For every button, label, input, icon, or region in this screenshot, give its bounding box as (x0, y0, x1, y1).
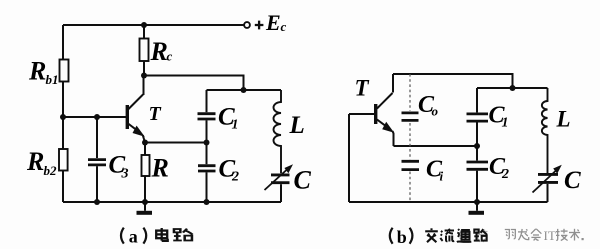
terminal: +Ec supply open circle (244, 22, 250, 28)
svg-text:1: 1 (502, 116, 509, 131)
wire: variable capacitor to bottom rail (280, 184, 282, 202)
svg-text:2: 2 (231, 170, 239, 185)
watermark: faint overlap glyph under caption (459, 230, 470, 243)
variable capacitor C plates circuit (b) (538, 174, 558, 182)
caption (b): left parenthesis (390, 228, 393, 244)
caption (b): character lu (road) second (474, 229, 487, 241)
variable capacitor C arrow circuit (a) (265, 170, 288, 191)
wire: emitter feedback wire (145, 142, 207, 144)
watermark: character long (dragon) (518, 229, 529, 240)
svg-text:R: R (26, 147, 44, 176)
node: base junction on left rail (60, 114, 66, 120)
svg-text:c: c (167, 49, 173, 64)
wire: emitter resistor lower segment (144, 176, 146, 202)
wire: base wire from divider to transistor (63, 116, 126, 118)
svg-text:i: i (440, 169, 444, 184)
variable capacitor C plates circuit (a) (271, 175, 290, 183)
capacitor C2 plates circuit (b) (467, 162, 489, 169)
variable capacitor C arrowhead circuit (b) (553, 165, 562, 174)
ground circuit (a) (137, 202, 153, 215)
wire: C2 branch upper segment (206, 143, 208, 165)
svg-text:3: 3 (121, 167, 129, 182)
svg-text:b2: b2 (44, 163, 58, 178)
caption (b): character tong (through) (457, 229, 471, 242)
svg-text:o: o (432, 104, 439, 119)
transistor T emitter arrowhead circuit (a) (133, 126, 145, 137)
watermark: character ji (skill) (556, 229, 568, 241)
capacitor C1 plates circuit (a) (198, 114, 216, 119)
caption (a): left parenthesis (121, 228, 124, 244)
transistor T emitter lead circuit (b) (377, 120, 394, 147)
wire: C1 branch lower segment (206, 120, 208, 142)
svg-text:a: a (129, 227, 138, 247)
wire: variable capacitor to bottom rail circuit (b) (547, 184, 549, 202)
caption (b): character jiao (alternating) (425, 228, 438, 242)
caption (a): character lu (road) (173, 229, 192, 241)
node: tank top junction circuit (b) (510, 85, 516, 91)
transistor T collector lead circuit (a) (128, 76, 144, 110)
resistor Rb2 body (59, 149, 68, 171)
wire: left rail circuit (a) (62, 25, 64, 202)
svg-text:R: R (151, 154, 169, 183)
watermark: character hui (meeting) (531, 229, 541, 241)
svg-text:T: T (149, 103, 162, 125)
variable capacitor C arrowhead circuit (a) (284, 164, 293, 173)
svg-text:T: T (355, 76, 370, 101)
wire: top rail circuit (b) (393, 74, 513, 88)
wire: tank top wire circuit (b) (477, 87, 548, 89)
svg-text:1: 1 (232, 118, 239, 133)
wire: C2 branch lower segment (206, 172, 208, 202)
wire: C3 branch lower segment (96, 166, 98, 202)
wire: Rc branch upper segment (143, 25, 145, 39)
node: collector junction (141, 73, 147, 79)
svg-text:c: c (281, 19, 287, 34)
svg-text:b1: b1 (46, 72, 59, 87)
inductor L circuit (a) (274, 90, 282, 173)
inductor L circuit (b) (542, 88, 548, 173)
wire: Rc branch lower segment to collector node (143, 61, 145, 76)
wire: base wire circuit (b) (349, 113, 374, 115)
svg-text:C: C (294, 166, 312, 195)
wire: left base rail circuit (b) (348, 114, 350, 202)
node: C3 bottom junction (94, 199, 100, 205)
wire: emitter rail circuit (b) (394, 145, 478, 147)
node: C1-C2 junction circuit (a) (204, 140, 210, 146)
transistor T collector lead circuit (b) (377, 93, 393, 109)
wire: top supply rail circuit (a) (63, 24, 244, 26)
wire: C1 branch upper segment (206, 90, 208, 112)
wire: C1 branch upper segment circuit (b) (476, 88, 478, 112)
caption (a): right parenthesis (143, 228, 146, 244)
watermark: character yu (505, 230, 516, 239)
caption (b): character liu (flow) (440, 229, 454, 242)
transistor T base bar circuit (a) (126, 105, 129, 129)
wire: collector rail to tank (144, 76, 244, 91)
capacitor Ci plates (402, 161, 420, 169)
svg-text:IT: IT (544, 228, 556, 243)
transistor T emitter arrowhead circuit (b) (382, 122, 394, 133)
resistor R body (142, 155, 150, 176)
watermark: trailing period (582, 238, 584, 240)
wire: C1 branch lower segment circuit (b) (476, 123, 478, 147)
svg-text:2: 2 (501, 167, 509, 182)
wire: emitter resistor upper segment (144, 143, 146, 156)
label: +Ec plus sign (255, 21, 264, 30)
node: C2 bottom junction circuit (a) (204, 199, 210, 205)
wire: bottom rail circuit (b) (349, 201, 548, 203)
node: C1-C2 junction circuit (b) (474, 143, 480, 149)
svg-text:L: L (556, 107, 571, 132)
transistor T base bar circuit (b) (374, 104, 377, 124)
svg-text:b: b (397, 227, 407, 247)
node: emitter resistor bottom junction (142, 199, 148, 205)
resistor Rc body (140, 39, 149, 62)
capacitor C1 plates circuit (b) (467, 114, 489, 121)
node: emitter junction (142, 140, 148, 146)
wire: C2 branch upper segment circuit (b) (476, 146, 478, 161)
resistor Rb1 body (60, 60, 69, 82)
node: C2 bottom junction circuit (b) (474, 199, 480, 205)
capacitive reactance line Co-Ci (dashed) (409, 74, 411, 202)
caption (a): character dian (electric) (156, 228, 168, 241)
svg-text:E: E (265, 10, 281, 35)
svg-text:C: C (564, 167, 581, 194)
wire: C2 branch lower segment circuit (b) (476, 171, 478, 202)
transistor T emitter lead circuit (a) (128, 124, 145, 143)
caption (b): right parenthesis (410, 228, 413, 244)
node: supply rail junction (141, 22, 147, 28)
watermark: character shu (technique) (569, 229, 580, 241)
svg-text:R: R (28, 57, 46, 86)
wire: bottom rail circuit (a) (63, 201, 281, 203)
svg-text:L: L (289, 112, 305, 139)
capacitor C3 plates (88, 160, 106, 165)
capacitor C2 plates circuit (a) (198, 166, 216, 171)
capacitor Co plates (402, 113, 419, 121)
node: tank top junction (241, 87, 247, 93)
wire: tank top wire circuit (a) (207, 89, 282, 91)
variable capacitor C arrow circuit (b) (533, 171, 557, 193)
wire: collector to top rail circuit (b) (392, 74, 394, 93)
wire: C3 branch upper segment (96, 117, 98, 158)
watermark: faint overlap glyph under caption second (476, 230, 488, 243)
ground circuit (b) (469, 202, 485, 215)
node: C3 top junction (94, 114, 100, 120)
svg-text:R: R (150, 37, 168, 66)
